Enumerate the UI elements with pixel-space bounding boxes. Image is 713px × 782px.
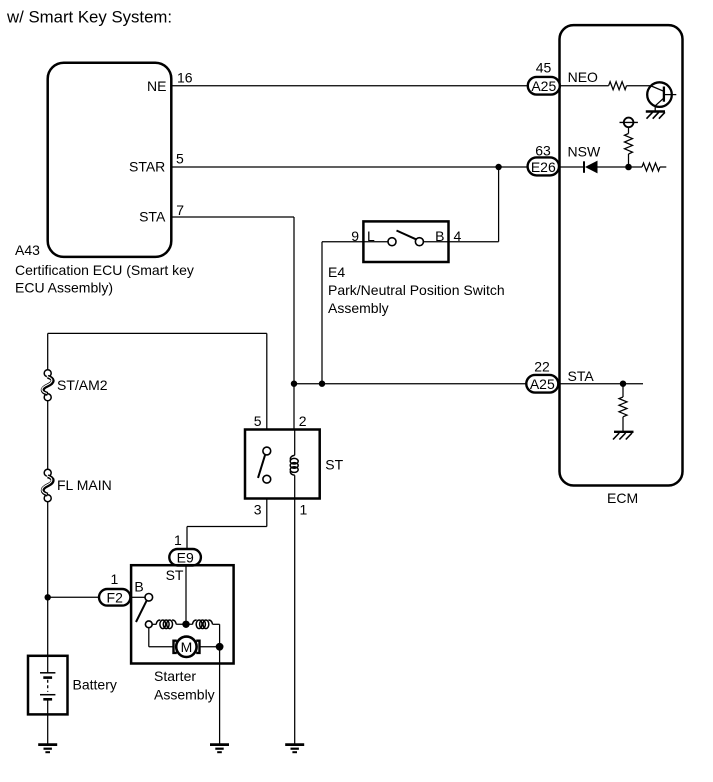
svg-text:2: 2	[299, 413, 307, 429]
wire STA internal	[558, 383, 643, 385]
wire E26 to diode	[559, 166, 584, 168]
node on STAR wire	[495, 164, 501, 170]
pin label NE	[147, 78, 166, 94]
ECM label STA	[568, 368, 595, 384]
pull-up terminal circle	[620, 118, 638, 128]
svg-text:STA: STA	[139, 208, 166, 224]
svg-text:45: 45	[536, 60, 552, 76]
svg-text:63: 63	[535, 143, 551, 159]
pin number 45	[536, 60, 552, 76]
E9 pin number 1	[174, 532, 182, 548]
wire E4 pin4 vertical to STAR	[498, 167, 500, 242]
svg-text:1: 1	[300, 502, 308, 518]
svg-text:w/ Smart Key System:: w/ Smart Key System:	[6, 8, 172, 27]
svg-text:Starter: Starter	[154, 668, 196, 684]
battery cell symbol	[40, 656, 55, 715]
svg-text:ECM: ECM	[607, 490, 638, 506]
wire relay pin1 vertical to ground	[294, 499, 296, 745]
node starter coil junction	[182, 621, 189, 628]
wire resistor to NSW junction	[628, 154, 630, 167]
wire F2 to starter contact	[130, 596, 145, 598]
svg-text:E26: E26	[531, 159, 556, 175]
svg-text:A43: A43	[15, 242, 40, 258]
svg-text:A25: A25	[530, 376, 555, 392]
wire starter to ground	[219, 647, 221, 745]
wire E4 pin9 branch vertical	[321, 242, 323, 384]
battery label	[73, 677, 117, 693]
wire STAR to ECM E26-63	[171, 166, 527, 168]
wire motor right	[200, 646, 220, 648]
E4 switch contact left	[388, 238, 396, 246]
ECM label	[607, 490, 638, 506]
resistor STA pull-down	[619, 397, 627, 417]
ground relay pin1	[285, 745, 304, 753]
wire transistor emitter to ground	[654, 106, 656, 112]
ground starter	[210, 745, 229, 753]
relay pin number 2	[299, 413, 307, 429]
connector E9	[169, 549, 201, 566]
pin number 63	[535, 143, 551, 159]
svg-text:Assembly: Assembly	[328, 300, 389, 316]
E4 caption	[328, 264, 505, 316]
svg-text:22: 22	[534, 359, 550, 375]
connector A25 pin 22	[526, 375, 558, 393]
node STA/relay junction	[291, 381, 297, 387]
wire STA horizontal from A43	[171, 216, 294, 218]
E4 pin label L	[367, 228, 375, 244]
park/neutral position switch E4 box	[363, 221, 448, 262]
relay coil wire bottom	[294, 475, 296, 498]
E4 switch blade	[397, 231, 417, 240]
diode NSW	[584, 161, 598, 174]
wire E4 pin9 horizontal	[322, 241, 363, 243]
E4 pin number 9	[351, 228, 359, 244]
svg-text:M: M	[181, 639, 193, 655]
resistor NSW horizontal	[642, 163, 660, 171]
certification ECU A43 box	[48, 63, 172, 257]
F2 pin number 1	[111, 571, 119, 587]
svg-text:FL MAIN: FL MAIN	[57, 477, 112, 493]
pin number 7	[176, 202, 184, 218]
svg-text:L: L	[367, 228, 375, 244]
svg-text:B: B	[435, 228, 444, 244]
svg-text:3: 3	[254, 502, 262, 518]
wire NE to ECM A25-45	[171, 85, 528, 87]
wire battery to ground	[47, 714, 49, 744]
wire E4 pin4 horizontal	[449, 241, 499, 243]
transistor	[647, 82, 676, 107]
svg-text:Certification ECU (Smart key: Certification ECU (Smart key	[15, 262, 194, 278]
fuse ST/AM2	[42, 370, 53, 401]
E4 pin label B	[435, 228, 444, 244]
wire STA to ECM A25-22	[294, 383, 526, 385]
starter coil contact	[145, 621, 152, 628]
E9 label ST	[166, 567, 184, 583]
wire resistor to ground	[622, 417, 624, 432]
wire left vertical segment 1	[47, 333, 49, 369]
node STA internal	[620, 381, 626, 387]
wire coil middle	[176, 623, 193, 625]
wire relay pin3 horizontal to E9	[187, 526, 267, 528]
starter assembly box	[131, 565, 234, 663]
wire E9 stub	[186, 527, 188, 550]
wire E9 down into starter	[185, 565, 187, 624]
svg-text:5: 5	[254, 413, 262, 429]
fuse label FL MAIN	[57, 477, 112, 493]
svg-text:B: B	[134, 578, 143, 594]
fuse label ST/AM2	[57, 377, 108, 393]
relay pin number 1	[300, 502, 308, 518]
starter contact B	[145, 594, 153, 602]
ECM label NSW	[568, 144, 601, 160]
svg-text:STAR: STAR	[129, 158, 165, 174]
svg-text:Battery: Battery	[73, 677, 117, 693]
svg-text:1: 1	[111, 571, 119, 587]
ground battery	[38, 745, 57, 753]
title	[6, 8, 172, 27]
A43 caption	[15, 242, 194, 295]
starter pull-in coil	[152, 620, 176, 629]
resistor NSW pull-up vertical	[625, 134, 633, 154]
E4 switch contact right	[415, 238, 423, 246]
relay coil	[290, 455, 298, 475]
svg-text:Park/Neutral Position Switch: Park/Neutral Position Switch	[328, 282, 505, 298]
wire relay pin3 vertical	[266, 499, 268, 527]
svg-text:NEO: NEO	[568, 69, 598, 85]
pin number 5	[176, 151, 184, 167]
relay pin number 3	[254, 502, 262, 518]
wire vertical STA down to relay pin 2	[293, 217, 295, 430]
relay switch contact top	[263, 447, 271, 455]
wire starter left branch	[149, 628, 174, 647]
node E4 branch junction	[319, 381, 325, 387]
E4 pin number 4	[454, 228, 462, 244]
svg-text:NSW: NSW	[568, 144, 601, 160]
wire circle to resistor	[628, 127, 630, 133]
starter switch blade	[136, 601, 147, 622]
pin number 22	[534, 359, 550, 375]
starter hold-in coil	[193, 620, 213, 629]
fuse FL MAIN	[42, 469, 53, 501]
wire battery feed top horizontal	[48, 332, 267, 334]
svg-text:E9: E9	[177, 550, 194, 566]
wire NEO internal	[560, 85, 609, 87]
wire resistor to transistor	[627, 85, 652, 87]
svg-text:9: 9	[351, 228, 359, 244]
relay coil wire top	[294, 430, 296, 456]
wire relay pin5 vertical	[266, 333, 268, 429]
svg-text:A25: A25	[531, 78, 556, 94]
pin number 16	[177, 69, 193, 85]
svg-text:E4: E4	[328, 264, 345, 280]
svg-text:NE: NE	[147, 78, 166, 94]
pin label STA	[139, 208, 166, 224]
svg-text:F2: F2	[107, 590, 124, 606]
chassis ground transistor	[646, 112, 665, 119]
node motor output junction	[216, 643, 224, 651]
svg-text:16: 16	[177, 69, 193, 85]
starter relay ST box	[245, 430, 320, 499]
chassis ground STA	[613, 432, 634, 440]
svg-text:1: 1	[174, 532, 182, 548]
battery box	[28, 656, 68, 715]
svg-text:ST: ST	[166, 567, 184, 583]
E4 internal wire right	[423, 241, 448, 243]
starter pin label B	[134, 578, 143, 594]
wire coil right end	[213, 624, 220, 647]
connector E26 pin 63	[528, 157, 559, 175]
wire diode to junction	[598, 166, 643, 168]
starter caption	[154, 668, 215, 702]
relay switch contact bottom	[263, 475, 271, 483]
svg-text:5: 5	[176, 151, 184, 167]
svg-text:STA: STA	[568, 368, 595, 384]
svg-text:ECU Assembly): ECU Assembly)	[15, 279, 113, 295]
wire F2 to battery line	[48, 596, 99, 598]
connector A25 pin 45	[528, 77, 560, 95]
node NSW junction	[625, 164, 632, 171]
starter motor M	[174, 637, 200, 657]
relay switch blade	[258, 455, 265, 478]
svg-text:7: 7	[176, 202, 184, 218]
ECM label NEO	[568, 69, 598, 85]
E4 internal wire left	[363, 241, 388, 243]
svg-text:Assembly: Assembly	[154, 686, 215, 702]
pin label STAR	[129, 158, 165, 174]
svg-text:ST/AM2: ST/AM2	[57, 377, 108, 393]
relay pin number 5	[254, 413, 262, 429]
ECM box	[560, 25, 683, 485]
svg-text:4: 4	[454, 228, 462, 244]
svg-text:ST: ST	[325, 457, 343, 473]
relay label ST	[325, 457, 343, 473]
resistor NEO	[609, 82, 627, 90]
wire resistor stub	[660, 166, 666, 168]
connector F2	[99, 589, 130, 606]
wire left vertical segment 2	[47, 401, 49, 470]
wire left vertical segment 3	[47, 502, 49, 656]
node battery/F2 junction	[45, 594, 51, 600]
wire STA junction down	[622, 384, 624, 397]
